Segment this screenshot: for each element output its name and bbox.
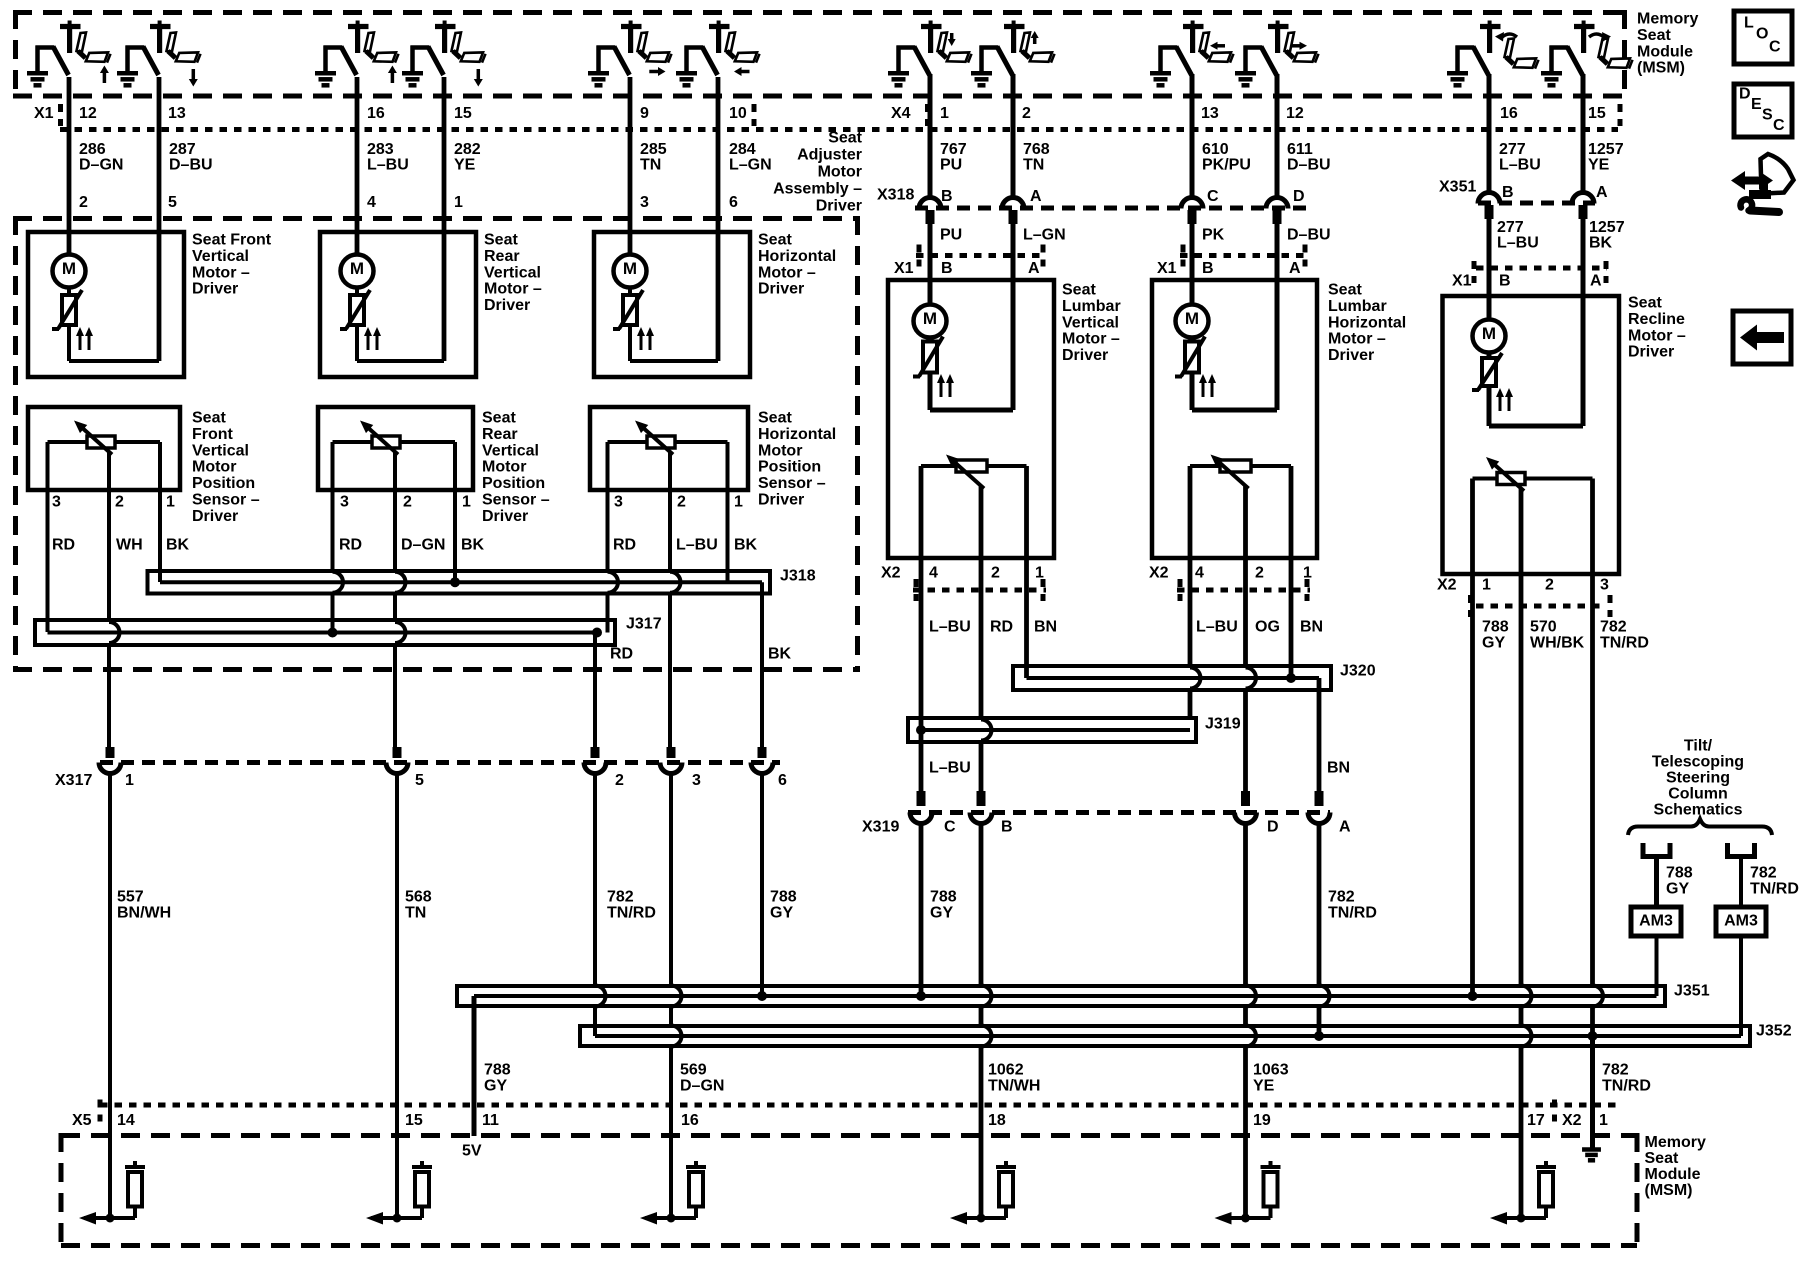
svg-text:Telescoping: Telescoping [1652, 754, 1744, 771]
svg-text:4: 4 [1195, 565, 1204, 582]
svg-text:16: 16 [1500, 105, 1518, 122]
svg-text:AM3: AM3 [1724, 913, 1758, 930]
svg-text:Motor: Motor [192, 459, 236, 476]
svg-text:Sensor –: Sensor – [192, 492, 260, 509]
svg-text:Lumbar: Lumbar [1328, 298, 1387, 315]
svg-text:BK: BK [166, 537, 190, 554]
svg-text:1: 1 [1303, 565, 1312, 582]
svg-text:1: 1 [454, 194, 463, 211]
svg-text:BK: BK [1589, 235, 1613, 252]
svg-text:Motor –: Motor – [1062, 331, 1120, 348]
svg-text:10: 10 [729, 105, 747, 122]
svg-text:3: 3 [614, 494, 623, 511]
svg-text:GY: GY [930, 905, 953, 922]
svg-text:B: B [1502, 184, 1514, 201]
svg-text:J319: J319 [1205, 716, 1241, 733]
svg-text:Seat: Seat [1062, 282, 1096, 299]
svg-text:L–GN: L–GN [729, 157, 772, 174]
svg-text:568: 568 [405, 889, 432, 906]
svg-text:TN/RD: TN/RD [607, 905, 656, 922]
svg-text:12: 12 [1286, 105, 1304, 122]
svg-text:Steering: Steering [1666, 770, 1730, 787]
svg-text:TN/RD: TN/RD [1602, 1078, 1651, 1095]
svg-text:Seat: Seat [828, 130, 862, 147]
svg-text:D: D [1293, 188, 1305, 205]
svg-text:BN/WH: BN/WH [117, 905, 171, 922]
svg-text:A: A [1590, 273, 1602, 290]
svg-text:GY: GY [770, 905, 793, 922]
svg-text:D–BU: D–BU [169, 157, 213, 174]
svg-text:Column: Column [1668, 786, 1728, 803]
svg-text:B: B [1001, 819, 1013, 836]
svg-text:M: M [623, 259, 637, 278]
svg-text:BN: BN [1034, 619, 1057, 636]
svg-text:285: 285 [640, 141, 667, 158]
svg-text:768: 768 [1023, 141, 1050, 158]
svg-text:1257: 1257 [1588, 141, 1624, 158]
svg-text:14: 14 [117, 1112, 135, 1129]
svg-text:782: 782 [1602, 1062, 1629, 1079]
svg-text:X1: X1 [1157, 260, 1177, 277]
svg-text:C: C [944, 819, 956, 836]
svg-text:Sensor –: Sensor – [482, 492, 550, 509]
svg-text:5: 5 [415, 772, 424, 789]
svg-text:Vertical: Vertical [1062, 314, 1119, 331]
svg-text:X2: X2 [1437, 577, 1457, 594]
svg-text:Module: Module [1637, 43, 1693, 60]
svg-text:Seat: Seat [484, 232, 518, 249]
svg-text:788: 788 [770, 889, 797, 906]
svg-text:J352: J352 [1756, 1023, 1792, 1040]
svg-text:Seat: Seat [1645, 1150, 1679, 1167]
svg-text:3: 3 [1600, 577, 1609, 594]
svg-text:A: A [1028, 260, 1040, 277]
svg-text:Driver: Driver [1628, 344, 1674, 361]
svg-text:X5: X5 [72, 1112, 92, 1129]
svg-text:Adjuster: Adjuster [797, 147, 862, 164]
svg-text:J317: J317 [626, 616, 662, 633]
svg-text:5V: 5V [462, 1143, 482, 1160]
svg-text:11: 11 [482, 1112, 499, 1129]
svg-text:Seat: Seat [1637, 27, 1671, 44]
svg-text:X2: X2 [1149, 565, 1169, 582]
svg-text:610: 610 [1202, 141, 1229, 158]
svg-text:283: 283 [367, 141, 394, 158]
svg-text:4: 4 [929, 565, 938, 582]
svg-text:GY: GY [1666, 881, 1689, 898]
svg-text:B: B [941, 188, 953, 205]
svg-text:TN: TN [640, 157, 661, 174]
svg-text:9: 9 [640, 105, 649, 122]
svg-text:2: 2 [1545, 577, 1554, 594]
svg-text:6: 6 [778, 772, 787, 789]
svg-text:GY: GY [1482, 635, 1505, 652]
svg-text:WH/BK: WH/BK [1530, 635, 1585, 652]
svg-text:J351: J351 [1674, 983, 1710, 1000]
svg-text:1: 1 [940, 105, 949, 122]
svg-text:Driver: Driver [484, 297, 530, 314]
svg-text:BK: BK [461, 537, 485, 554]
svg-text:TN/RD: TN/RD [1750, 881, 1799, 898]
svg-text:BK: BK [734, 537, 758, 554]
svg-text:2: 2 [991, 565, 1000, 582]
svg-text:Horizontal: Horizontal [758, 248, 836, 265]
svg-text:Driver: Driver [758, 281, 804, 298]
svg-text:TN: TN [1023, 157, 1044, 174]
svg-text:Motor: Motor [818, 164, 862, 181]
svg-text:RD: RD [52, 537, 75, 554]
svg-text:277: 277 [1499, 141, 1526, 158]
svg-text:M: M [62, 259, 76, 278]
svg-text:Rear: Rear [484, 248, 520, 265]
svg-text:13: 13 [168, 105, 186, 122]
svg-text:YE: YE [454, 157, 476, 174]
svg-text:D–BU: D–BU [1287, 157, 1331, 174]
svg-text:782: 782 [1600, 619, 1627, 636]
svg-text:18: 18 [988, 1112, 1006, 1129]
svg-text:Seat: Seat [482, 410, 516, 427]
svg-text:Position: Position [482, 475, 545, 492]
svg-text:2: 2 [115, 494, 124, 511]
svg-text:Motor: Motor [482, 459, 526, 476]
svg-text:TN/RD: TN/RD [1328, 905, 1377, 922]
svg-text:12: 12 [79, 105, 97, 122]
svg-text:Motor –: Motor – [484, 281, 542, 298]
svg-text:TN/RD: TN/RD [1600, 635, 1649, 652]
svg-text:PU: PU [940, 227, 962, 244]
svg-text:Front: Front [192, 426, 234, 443]
svg-text:X2: X2 [881, 565, 901, 582]
svg-text:O: O [1756, 26, 1768, 43]
svg-text:J320: J320 [1340, 663, 1376, 680]
svg-text:M: M [1482, 324, 1496, 343]
svg-text:B: B [1499, 273, 1511, 290]
svg-text:RD: RD [990, 619, 1013, 636]
svg-text:Motor –: Motor – [1628, 327, 1686, 344]
svg-text:L–BU: L–BU [929, 619, 971, 636]
svg-text:6: 6 [729, 194, 738, 211]
svg-text:X351: X351 [1439, 179, 1476, 196]
svg-text:Schematics: Schematics [1654, 802, 1743, 819]
svg-text:D: D [1739, 86, 1751, 103]
svg-text:Driver: Driver [192, 281, 238, 298]
svg-text:Driver: Driver [816, 198, 862, 215]
svg-text:Module: Module [1645, 1166, 1701, 1183]
svg-text:M: M [1185, 309, 1199, 328]
svg-text:Rear: Rear [482, 426, 518, 443]
svg-text:1: 1 [462, 494, 471, 511]
svg-text:OG: OG [1255, 619, 1280, 636]
svg-text:Assembly –: Assembly – [773, 181, 862, 198]
svg-text:E: E [1751, 96, 1762, 113]
svg-text:788: 788 [1482, 619, 1509, 636]
svg-text:X2: X2 [1562, 1112, 1582, 1129]
svg-text:611: 611 [1287, 141, 1313, 158]
svg-text:3: 3 [340, 494, 349, 511]
svg-text:Driver: Driver [192, 508, 238, 525]
svg-text:277: 277 [1497, 219, 1524, 236]
svg-text:M: M [923, 309, 937, 328]
svg-text:788: 788 [484, 1062, 511, 1079]
svg-text:1: 1 [1599, 1112, 1608, 1129]
svg-text:Horizontal: Horizontal [758, 426, 836, 443]
svg-text:D–GN: D–GN [79, 157, 123, 174]
svg-text:Motor –: Motor – [192, 264, 250, 281]
svg-text:2: 2 [79, 194, 88, 211]
svg-text:Motor –: Motor – [1328, 331, 1386, 348]
svg-text:A: A [1339, 819, 1351, 836]
svg-text:1257: 1257 [1589, 219, 1625, 236]
svg-text:D: D [1267, 819, 1279, 836]
svg-text:286: 286 [79, 141, 106, 158]
svg-text:1062: 1062 [988, 1062, 1024, 1079]
svg-text:Seat Front: Seat Front [192, 232, 272, 249]
svg-text:1: 1 [1035, 565, 1044, 582]
svg-text:570: 570 [1530, 619, 1557, 636]
svg-text:Seat: Seat [1628, 295, 1662, 312]
svg-text:D–GN: D–GN [680, 1078, 724, 1095]
svg-text:Seat: Seat [758, 410, 792, 427]
svg-text:Position: Position [758, 459, 821, 476]
svg-text:GY: GY [484, 1078, 507, 1095]
svg-text:Seat: Seat [1328, 282, 1362, 299]
svg-text:PU: PU [940, 157, 962, 174]
svg-text:RD: RD [613, 537, 636, 554]
svg-text:767: 767 [940, 141, 967, 158]
svg-text:Recline: Recline [1628, 311, 1685, 328]
svg-text:L–BU: L–BU [676, 537, 718, 554]
svg-text:X1: X1 [34, 105, 54, 122]
svg-text:A: A [1289, 260, 1301, 277]
svg-text:C: C [1769, 39, 1781, 56]
svg-text:Driver: Driver [1328, 347, 1374, 364]
svg-text:788: 788 [1666, 865, 1693, 882]
svg-text:Position: Position [192, 475, 255, 492]
svg-text:16: 16 [681, 1112, 699, 1129]
svg-text:TN/WH: TN/WH [988, 1078, 1040, 1095]
svg-text:19: 19 [1253, 1112, 1271, 1129]
svg-text:284: 284 [729, 141, 756, 158]
svg-text:3: 3 [692, 772, 701, 789]
svg-text:2: 2 [1255, 565, 1264, 582]
svg-text:15: 15 [405, 1112, 423, 1129]
svg-text:782: 782 [607, 889, 634, 906]
svg-text:(MSM): (MSM) [1645, 1182, 1693, 1199]
svg-text:Seat: Seat [192, 410, 226, 427]
svg-text:L–BU: L–BU [1497, 235, 1539, 252]
svg-text:1: 1 [734, 494, 743, 511]
svg-text:2: 2 [677, 494, 686, 511]
svg-text:YE: YE [1588, 157, 1610, 174]
svg-text:D–BU: D–BU [1287, 227, 1331, 244]
svg-text:J318: J318 [780, 568, 816, 585]
svg-text:B: B [941, 260, 953, 277]
svg-text:X318: X318 [877, 187, 914, 204]
svg-text:TN: TN [405, 905, 426, 922]
svg-text:L: L [1744, 15, 1754, 32]
svg-text:Vertical: Vertical [192, 442, 249, 459]
svg-text:3: 3 [52, 494, 61, 511]
svg-text:WH: WH [116, 537, 143, 554]
svg-text:Memory: Memory [1637, 11, 1698, 28]
svg-text:1: 1 [1482, 577, 1491, 594]
svg-text:Motor: Motor [758, 442, 802, 459]
svg-text:Driver: Driver [1062, 347, 1108, 364]
svg-text:C: C [1773, 117, 1785, 134]
svg-text:Memory: Memory [1645, 1134, 1706, 1151]
svg-text:Seat: Seat [758, 232, 792, 249]
svg-text:Horizontal: Horizontal [1328, 314, 1406, 331]
svg-text:X1: X1 [1452, 273, 1472, 290]
svg-text:S: S [1762, 107, 1773, 124]
svg-text:Sensor –: Sensor – [758, 475, 826, 492]
svg-text:Tilt/: Tilt/ [1684, 738, 1713, 755]
svg-text:782: 782 [1750, 865, 1777, 882]
svg-text:16: 16 [367, 105, 385, 122]
svg-text:BN: BN [1300, 619, 1323, 636]
svg-text:AM3: AM3 [1639, 913, 1673, 930]
svg-text:A: A [1030, 188, 1042, 205]
svg-text:BN: BN [1327, 760, 1350, 777]
svg-text:PK: PK [1202, 227, 1225, 244]
svg-text:1: 1 [166, 494, 175, 511]
svg-text:C: C [1207, 188, 1219, 205]
svg-text:15: 15 [1588, 105, 1606, 122]
svg-text:Vertical: Vertical [484, 264, 541, 281]
svg-text:D–GN: D–GN [401, 537, 445, 554]
svg-text:L–BU: L–BU [1499, 157, 1541, 174]
svg-text:1063: 1063 [1253, 1062, 1289, 1079]
svg-text:L–BU: L–BU [367, 157, 409, 174]
svg-text:X319: X319 [862, 819, 899, 836]
svg-text:2: 2 [403, 494, 412, 511]
svg-text:RD: RD [339, 537, 362, 554]
svg-text:PK/PU: PK/PU [1202, 157, 1251, 174]
svg-text:X4: X4 [891, 105, 911, 122]
svg-text:YE: YE [1253, 1078, 1275, 1095]
svg-text:4: 4 [367, 194, 376, 211]
svg-text:(MSM): (MSM) [1637, 60, 1685, 77]
svg-text:569: 569 [680, 1062, 707, 1079]
svg-text:15: 15 [454, 105, 472, 122]
svg-text:A: A [1596, 184, 1608, 201]
svg-text:B: B [1202, 260, 1214, 277]
svg-text:L–BU: L–BU [1196, 619, 1238, 636]
svg-text:BK: BK [768, 646, 792, 663]
svg-text:Driver: Driver [758, 492, 804, 509]
svg-text:X317: X317 [55, 772, 92, 789]
svg-text:5: 5 [168, 194, 177, 211]
svg-text:2: 2 [1022, 105, 1031, 122]
svg-text:Motor –: Motor – [758, 264, 816, 281]
svg-text:Driver: Driver [482, 508, 528, 525]
svg-text:L–BU: L–BU [929, 760, 971, 777]
svg-text:2: 2 [615, 772, 624, 789]
svg-text:Vertical: Vertical [192, 248, 249, 265]
svg-text:3: 3 [640, 194, 649, 211]
svg-text:X1: X1 [894, 260, 914, 277]
svg-text:13: 13 [1201, 105, 1219, 122]
svg-text:Vertical: Vertical [482, 442, 539, 459]
svg-text:287: 287 [169, 141, 196, 158]
svg-text:L–GN: L–GN [1023, 227, 1066, 244]
svg-text:1: 1 [125, 772, 134, 789]
svg-text:RD: RD [610, 646, 633, 663]
svg-text:788: 788 [930, 889, 957, 906]
svg-text:M: M [350, 259, 364, 278]
svg-text:282: 282 [454, 141, 481, 158]
svg-text:Lumbar: Lumbar [1062, 298, 1121, 315]
svg-text:17: 17 [1527, 1112, 1545, 1129]
svg-text:782: 782 [1328, 889, 1355, 906]
svg-text:557: 557 [117, 889, 144, 906]
